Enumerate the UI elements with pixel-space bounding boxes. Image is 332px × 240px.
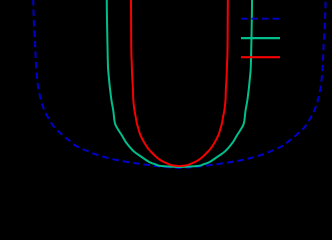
legend sample line: red solid (241, 56, 280, 58)
legend sample line: green solid (241, 37, 280, 39)
legend sample line: blue dashed (241, 18, 280, 20)
curve: red solid (narrowest) (131, 0, 228, 166)
curve: green solid (middle) (107, 0, 252, 167)
curve: blue dashed (widest) (33, 0, 325, 168)
